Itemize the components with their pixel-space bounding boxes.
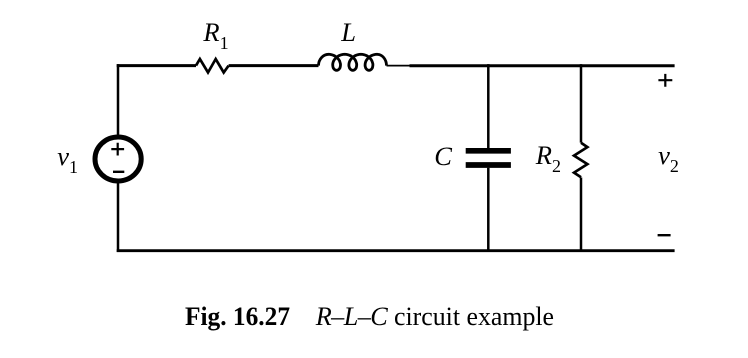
label R1 (203, 19, 228, 46)
label R2 (536, 142, 561, 169)
bottom wire rail (117, 249, 675, 252)
label v1 (57, 143, 78, 170)
label C (434, 143, 452, 170)
inductor L (319, 54, 387, 70)
wire L to right end (top) (410, 64, 675, 67)
wire top-left horizontal (source top to R1) (117, 64, 196, 67)
caption (185, 304, 557, 330)
resistor R1 (196, 59, 229, 73)
label L (341, 19, 356, 46)
voltage source v1 circle (95, 137, 141, 181)
resistor R2 (574, 143, 587, 178)
wire R2 to bottom rail (580, 178, 583, 253)
plus terminal v2 (658, 74, 672, 87)
wire top rail to R2 (580, 64, 583, 143)
wire capacitor to bottom rail (487, 168, 490, 252)
wire R1 to L (229, 64, 319, 67)
wire left vertical (top corner to source) (117, 64, 120, 137)
wire source bottom to bottom rail (117, 181, 120, 252)
label v2 (658, 142, 679, 169)
minus sign inside source (113, 171, 124, 173)
wire top rail to capacitor (487, 64, 490, 148)
capacitor C plates (466, 151, 511, 165)
plus sign inside source (111, 143, 124, 156)
wire L lead (thin) (387, 65, 411, 67)
minus terminal v2 (658, 234, 671, 236)
